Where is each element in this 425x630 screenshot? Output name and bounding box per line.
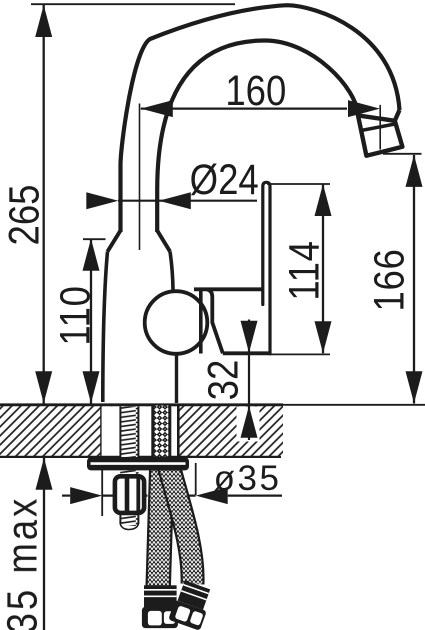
svg-text:114: 114 xyxy=(281,240,328,300)
svg-text:166: 166 xyxy=(366,248,413,311)
svg-text:35 max: 35 max xyxy=(0,496,46,630)
svg-text:110: 110 xyxy=(52,285,99,345)
svg-text:265: 265 xyxy=(1,185,48,246)
svg-text:Ø24: Ø24 xyxy=(190,156,259,203)
svg-text:160: 160 xyxy=(225,67,286,114)
svg-text:ø35: ø35 xyxy=(214,459,282,498)
svg-text:32: 32 xyxy=(200,360,247,401)
